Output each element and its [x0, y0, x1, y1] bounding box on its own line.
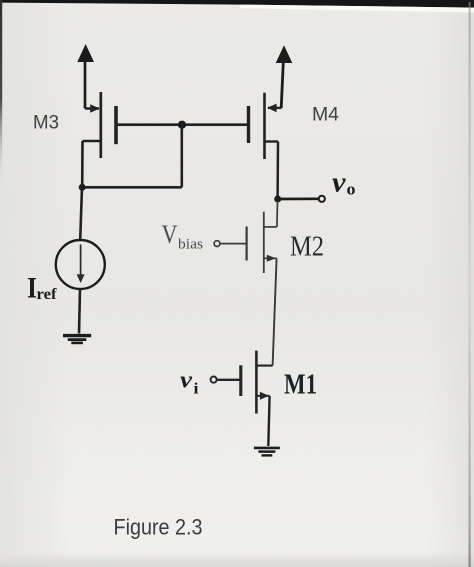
svg-text:M1: M1	[284, 369, 317, 401]
svg-text:ref: ref	[37, 286, 58, 303]
wire vi to M1 gate	[217, 379, 240, 381]
wire M1 source to ground	[268, 396, 269, 446]
svg-text:i: i	[194, 381, 200, 398]
ground of Iref branch	[63, 336, 91, 343]
svg-text:M4: M4	[312, 104, 339, 126]
Iref label	[27, 272, 57, 305]
transistor M2	[247, 201, 278, 273]
current source Iref	[56, 240, 105, 289]
output terminal open circle	[319, 196, 325, 202]
wire gate bus M3 to M4	[116, 123, 249, 126]
VDD supply arrow of M4	[276, 45, 293, 108]
wire node to output terminal	[278, 197, 319, 200]
transistor M4	[249, 93, 282, 159]
node Vo junction dot	[274, 196, 281, 203]
Vbias input terminal open circle	[214, 241, 220, 247]
wire M3 drain down to node A	[81, 141, 84, 187]
wire M2 source to M1 drain	[273, 258, 277, 365]
ground of M1	[254, 448, 280, 456]
wire M4 drain to node Vo	[276, 142, 279, 200]
vi label	[180, 368, 199, 398]
svg-text:o: o	[347, 180, 356, 199]
Vbias label	[162, 220, 204, 253]
svg-text:M3: M3	[33, 112, 59, 134]
node A junction dot	[79, 184, 86, 191]
svg-text:I: I	[27, 272, 37, 305]
screen bezel top edge	[0, 0, 474, 13]
Vo label	[332, 167, 356, 199]
svg-text:v: v	[180, 368, 192, 394]
wire diode connection horizontal	[82, 186, 182, 189]
transistor M1	[241, 351, 273, 414]
transistor M3	[83, 92, 117, 158]
wire Vbias to M2 gate	[220, 243, 246, 245]
wire node A to current source	[80, 187, 82, 240]
svg-text:bias: bias	[178, 237, 203, 253]
wire current source to ground	[79, 289, 80, 334]
svg-text:V: V	[162, 220, 178, 249]
vi input terminal open circle	[211, 377, 217, 383]
screen bezel right edge	[469, 2, 471, 567]
wire diode connection vertical	[181, 125, 184, 188]
svg-text:v: v	[332, 167, 347, 199]
screen bezel left edge	[0, 0, 2, 330]
VDD supply arrow of M3	[77, 44, 94, 109]
svg-text:Figure 2.3: Figure 2.3	[114, 515, 203, 540]
svg-text:M2: M2	[290, 232, 324, 263]
junction dot on gate bus	[178, 121, 186, 129]
